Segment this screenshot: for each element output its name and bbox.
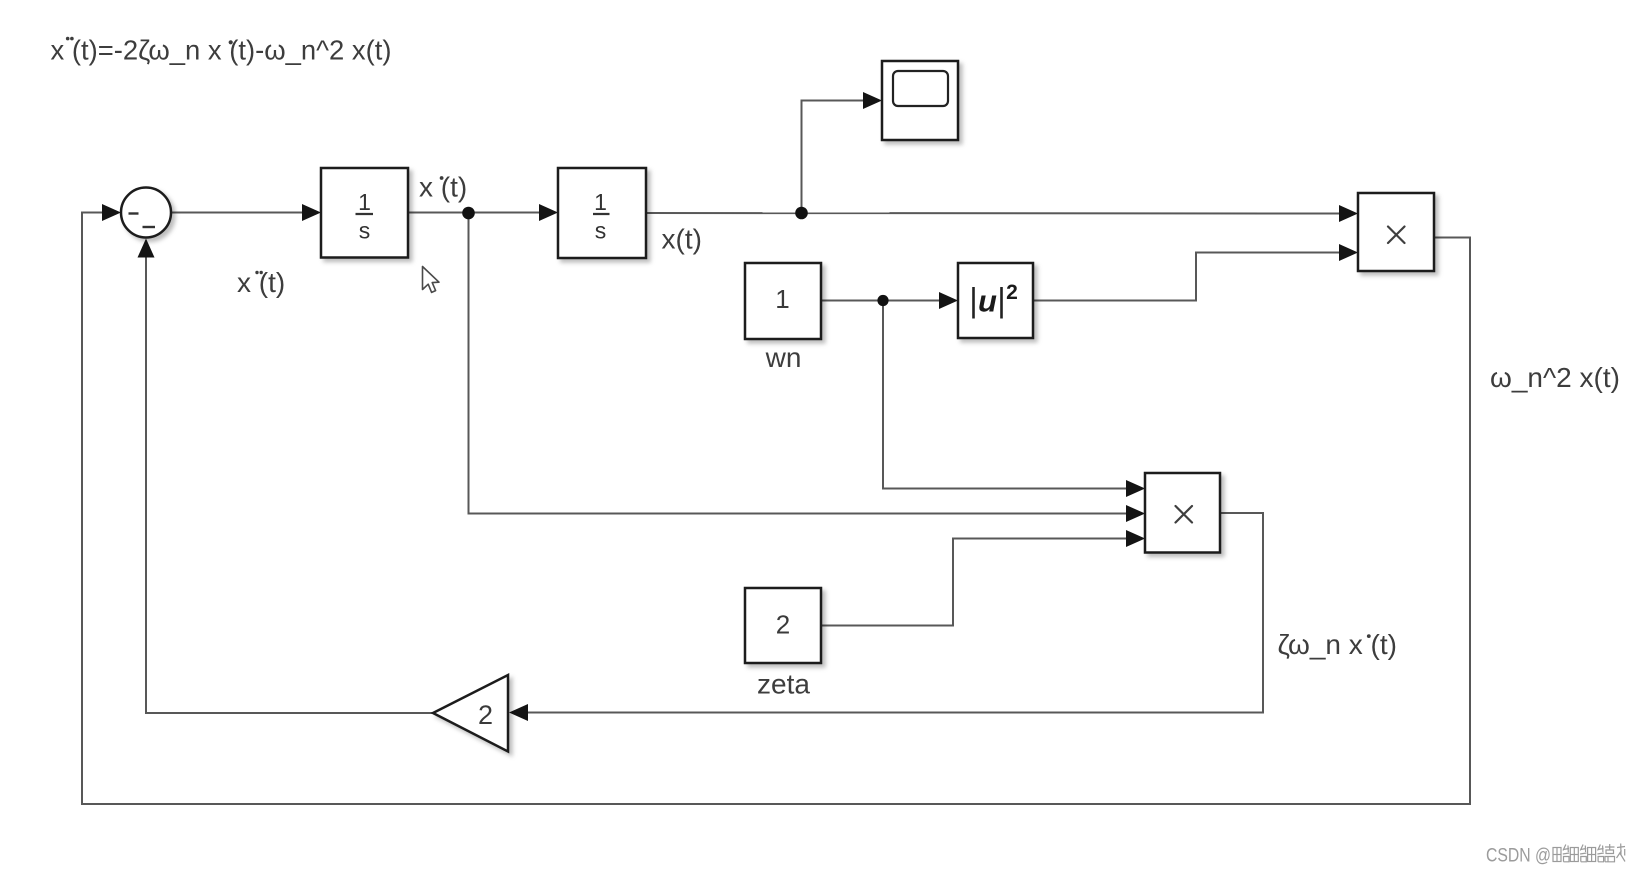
svg-text:CSDN @: CSDN @ [1486, 846, 1551, 867]
svg-text:x (t)=-2ζω_n x (t)-ω_n^2 x(t): x (t)=-2ζω_n x (t)-ω_n^2 x(t) [51, 35, 392, 66]
svg-text:s: s [595, 218, 607, 244]
svg-text:1: 1 [594, 189, 607, 215]
svg-text:1: 1 [775, 284, 789, 314]
svg-text:x(t): x(t) [662, 224, 702, 255]
svg-text:zeta: zeta [757, 669, 810, 700]
svg-text:2: 2 [776, 610, 790, 640]
svg-text:wn: wn [765, 342, 802, 373]
svg-text:2: 2 [1006, 281, 1018, 304]
svg-text:ζω_n x (t): ζω_n x (t) [1278, 629, 1397, 660]
svg-text:2: 2 [478, 700, 493, 730]
svg-text:ω_n^2 x(t): ω_n^2 x(t) [1490, 362, 1620, 393]
svg-text:1: 1 [358, 189, 371, 215]
svg-text:u: u [978, 284, 997, 319]
svg-text:s: s [359, 218, 371, 244]
svg-text:x (t): x (t) [419, 172, 467, 203]
